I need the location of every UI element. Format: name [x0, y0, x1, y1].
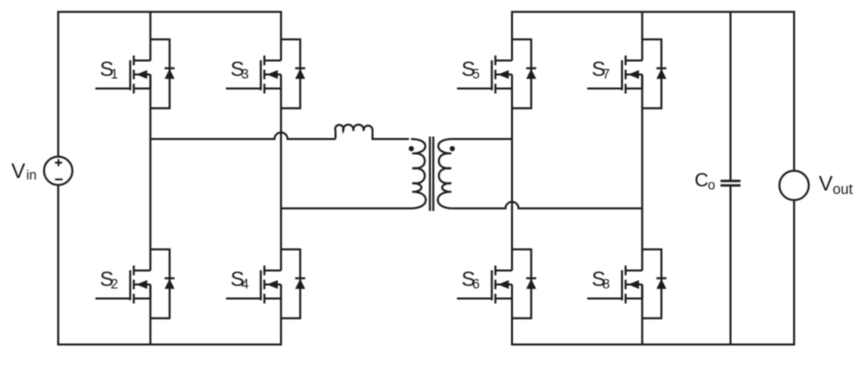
svg-text:C: C	[695, 169, 709, 191]
svg-text:2: 2	[111, 277, 119, 292]
svg-text:7: 7	[602, 67, 610, 82]
svg-text:V: V	[819, 172, 833, 195]
svg-text:3: 3	[241, 67, 249, 82]
svg-text:out: out	[833, 182, 853, 198]
svg-text:1: 1	[111, 67, 119, 82]
svg-text:8: 8	[602, 277, 610, 292]
svg-text:5: 5	[472, 67, 480, 82]
svg-text:o: o	[708, 177, 716, 192]
svg-text:V: V	[11, 160, 25, 183]
svg-text:4: 4	[241, 277, 249, 292]
svg-text:in: in	[26, 168, 37, 183]
svg-text:6: 6	[472, 277, 480, 292]
